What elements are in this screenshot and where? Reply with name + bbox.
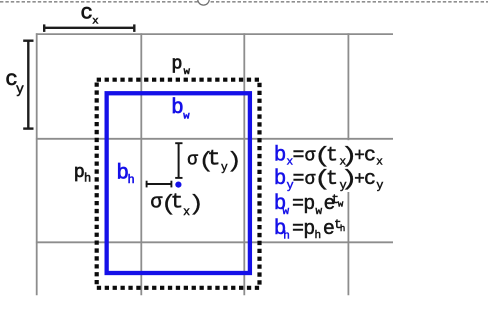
grid vertical line 1 xyxy=(36,33,38,295)
selection dashed border xyxy=(0,1,488,3)
svg-text:p: p xyxy=(303,218,315,241)
svg-text:): ) xyxy=(188,193,204,218)
svg-text:c: c xyxy=(80,3,93,26)
predicted box blue rectangle xyxy=(107,93,250,273)
equation by xyxy=(274,168,384,193)
svg-text:=: = xyxy=(293,168,305,191)
svg-text:b: b xyxy=(274,144,287,167)
sigma tx dimension line xyxy=(146,181,172,188)
grid horizontal line 3 xyxy=(36,241,393,243)
svg-text:=: = xyxy=(293,144,305,167)
svg-text:y: y xyxy=(16,83,24,98)
svg-text:t: t xyxy=(326,144,338,167)
svg-text:p: p xyxy=(303,193,315,216)
svg-text:h: h xyxy=(283,230,290,242)
svg-text:c: c xyxy=(364,144,376,167)
grid vertical line 2 xyxy=(140,33,142,295)
svg-text:t: t xyxy=(326,168,338,191)
svg-text:c: c xyxy=(364,168,376,191)
cy dimension line xyxy=(23,41,33,129)
svg-text:h: h xyxy=(128,173,135,187)
svg-text:t: t xyxy=(171,191,184,214)
svg-text:w: w xyxy=(316,206,323,218)
svg-text:w: w xyxy=(183,111,190,123)
svg-text:h: h xyxy=(84,171,91,185)
selection handle xyxy=(198,0,210,5)
grid horizontal line 1 xyxy=(36,33,393,35)
sigma ty dimension line xyxy=(175,143,182,179)
svg-text:w: w xyxy=(338,199,344,209)
equations text box white background xyxy=(271,140,386,192)
grid horizontal line 2 xyxy=(36,138,393,140)
svg-text:): ) xyxy=(226,149,242,174)
svg-text:t: t xyxy=(207,146,220,171)
svg-text:h: h xyxy=(315,230,322,242)
svg-text:x: x xyxy=(92,16,98,28)
svg-text:w: w xyxy=(184,66,191,78)
equation bh xyxy=(274,218,346,243)
svg-text:w: w xyxy=(283,206,290,218)
grid vertical line 4 xyxy=(347,33,349,295)
svg-text:b: b xyxy=(171,97,184,120)
equation bw xyxy=(274,193,344,218)
svg-text:h: h xyxy=(340,224,345,234)
svg-text:σ: σ xyxy=(187,150,198,170)
equation bx xyxy=(274,144,384,169)
svg-text:x: x xyxy=(376,157,383,169)
grid vertical line 3 xyxy=(243,33,245,295)
box center point xyxy=(175,182,181,188)
svg-text:y: y xyxy=(376,178,383,192)
prior box dotted rectangle xyxy=(97,80,260,288)
cx dimension line xyxy=(44,24,135,32)
svg-text:b: b xyxy=(274,168,287,191)
svg-text:p: p xyxy=(171,53,182,74)
